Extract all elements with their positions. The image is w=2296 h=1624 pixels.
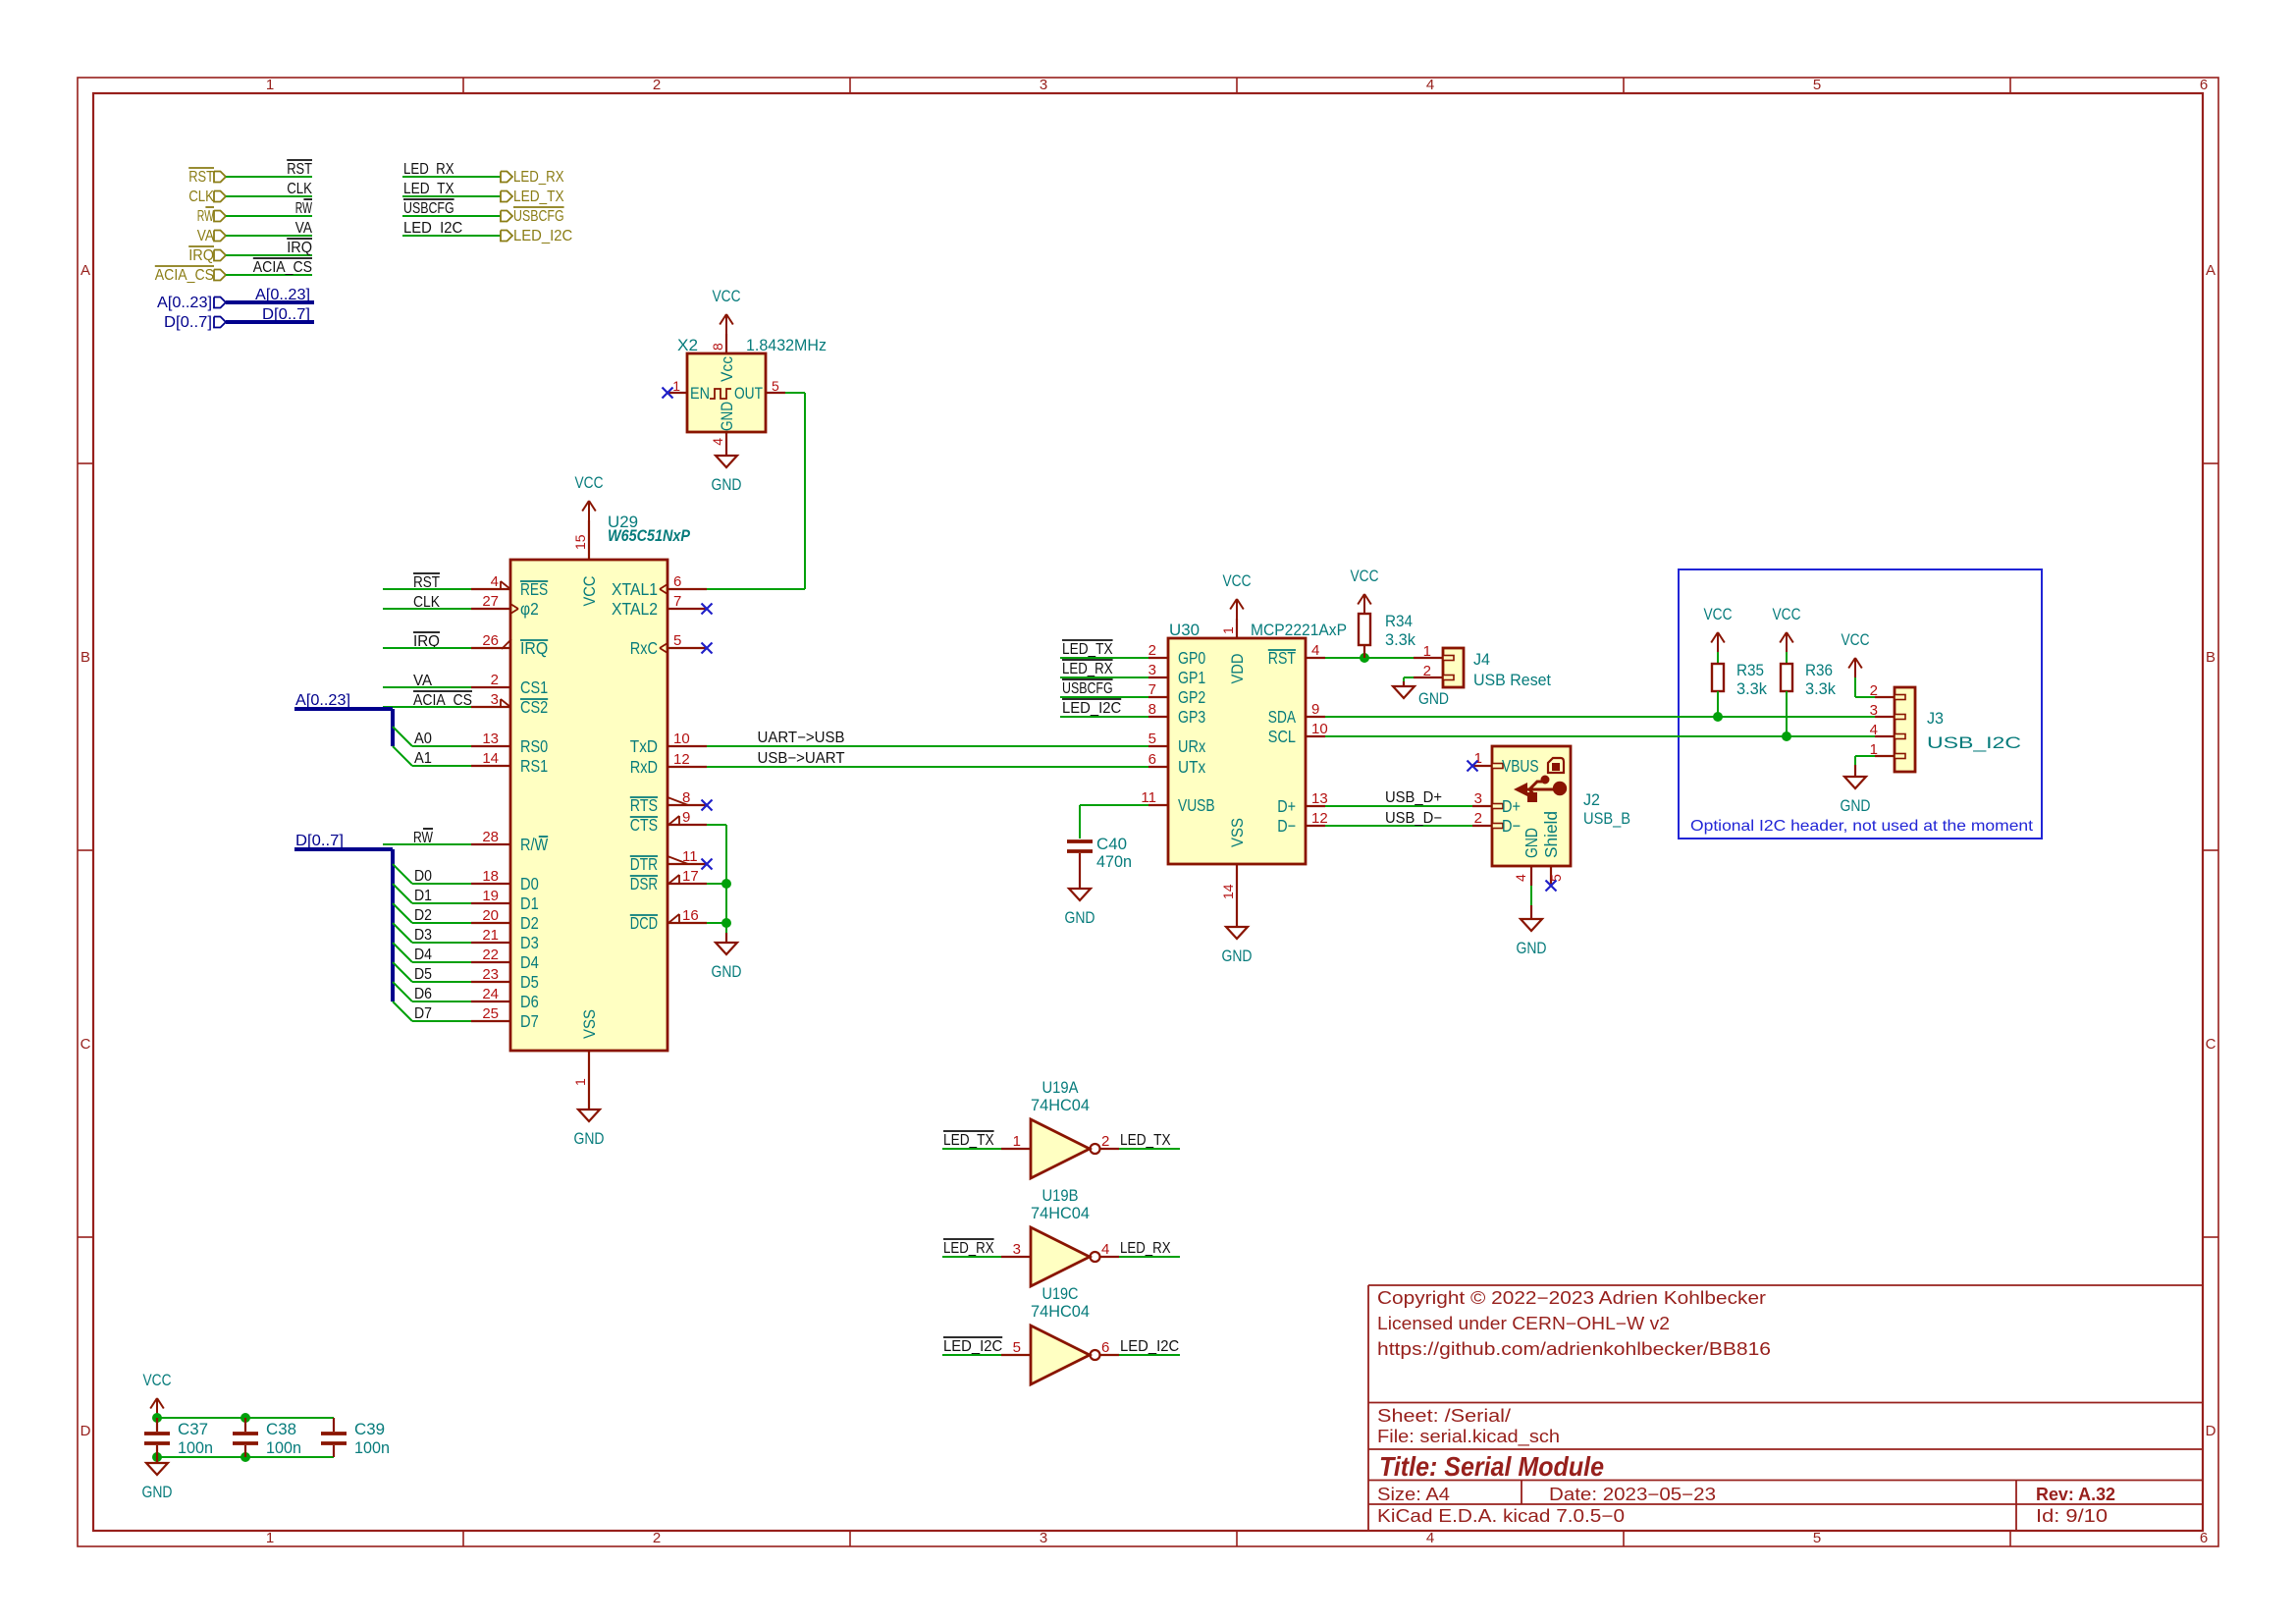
no-connect X2 pin 1 — [663, 388, 673, 399]
wire LED_I2C inverted to U19C — [942, 1354, 1001, 1356]
resistor R36 — [1786, 652, 1788, 664]
svg-text:B: B — [80, 649, 90, 666]
connector J2 pin 4 GND — [1530, 866, 1532, 886]
svg-text:5: 5 — [1813, 1530, 1821, 1546]
connector J2 pin 2 D- — [1472, 825, 1492, 827]
svg-text:C: C — [80, 1036, 91, 1053]
svg-text:RST: RST — [188, 169, 214, 186]
svg-text:Vcc: Vcc — [718, 356, 736, 382]
wire U30 SDA to J3 pin 3 — [1325, 716, 1875, 718]
svg-text:1: 1 — [572, 1078, 588, 1086]
svg-text:VA: VA — [197, 228, 215, 244]
svg-text:VBUS: VBUS — [1502, 756, 1539, 776]
svg-text:J2: J2 — [1583, 790, 1600, 809]
wire U30 RST to J4 — [1325, 657, 1414, 659]
note box optional I2C header — [1679, 569, 2042, 839]
svg-text:D0: D0 — [520, 874, 539, 893]
svg-text:File: serial.kicad_sch: File: serial.kicad_sch — [1377, 1427, 1560, 1447]
oscillator X2 waveform glyph — [710, 389, 731, 399]
wire USBCFG — [402, 215, 501, 217]
svg-text:3: 3 — [491, 691, 499, 708]
svg-text:CTS: CTS — [630, 815, 658, 835]
svg-text:2: 2 — [1423, 663, 1431, 679]
svg-text:R35: R35 — [1736, 661, 1764, 679]
svg-text:USBCFG: USBCFG — [403, 200, 454, 217]
svg-text:A[0..23]: A[0..23] — [255, 287, 310, 303]
hierarchical label LED_I2C — [501, 231, 512, 242]
svg-text:LED_TX: LED_TX — [943, 1132, 994, 1149]
svg-text:3: 3 — [1013, 1241, 1021, 1258]
svg-text:A[0..23]: A[0..23] — [295, 692, 350, 709]
connector J2 pin 3 D+ — [1472, 805, 1492, 807]
wire RST — [226, 176, 312, 178]
IC U30 pin 12 D− — [1306, 825, 1325, 827]
wire CLK to U29 — [383, 608, 471, 610]
wire D0 — [412, 883, 471, 885]
svg-text:RW: RW — [197, 208, 214, 225]
power VCC above U30 — [1236, 599, 1238, 619]
power VCC above U29 — [588, 501, 590, 520]
svg-text:100n: 100n — [266, 1438, 301, 1457]
svg-text:A: A — [80, 262, 90, 279]
svg-text:8: 8 — [1148, 701, 1156, 718]
svg-text:Date: 2023−05−23: Date: 2023−05−23 — [1549, 1485, 1716, 1504]
IC U29 pin 23 D5 — [471, 981, 510, 983]
svg-text:UTx: UTx — [1178, 757, 1205, 777]
IC U29 pin 17 DSR — [667, 883, 707, 885]
capacitor C39 — [333, 1418, 335, 1432]
svg-text:RxC: RxC — [630, 638, 658, 658]
wire LED_I2C from U19C — [1119, 1354, 1180, 1356]
svg-text:D1: D1 — [520, 893, 539, 913]
svg-text:4: 4 — [1311, 642, 1319, 659]
svg-text:U19B: U19B — [1042, 1186, 1079, 1205]
svg-text:U30: U30 — [1169, 621, 1200, 639]
svg-text:5: 5 — [772, 378, 779, 394]
connector J2 plug icon — [1548, 758, 1564, 773]
svg-text:LED_I2C: LED_I2C — [513, 228, 572, 244]
wire RW — [226, 215, 312, 217]
inverter U19C input pin 5 — [1001, 1354, 1031, 1356]
svg-text:VCC: VCC — [580, 576, 599, 607]
power VCC above R36 — [1786, 632, 1788, 652]
power VCC above R34 — [1363, 594, 1365, 614]
svg-text:USBCFG: USBCFG — [513, 208, 564, 225]
svg-text:LED_I2C: LED_I2C — [1120, 1338, 1179, 1355]
svg-text:6: 6 — [2200, 1530, 2208, 1546]
svg-text:2: 2 — [653, 77, 661, 93]
svg-text:GND: GND — [1517, 939, 1547, 957]
no-connect J2 VBUS — [1468, 761, 1478, 772]
connector J3 pin 3 — [1875, 716, 1895, 718]
svg-text:A[0..23]: A[0..23] — [157, 295, 212, 311]
svg-text:C38: C38 — [266, 1420, 296, 1438]
bus entry D5 — [393, 962, 412, 982]
svg-text:13: 13 — [482, 731, 499, 747]
connector J4 body — [1443, 648, 1464, 687]
wire ACIA_CS — [226, 274, 312, 276]
wire LED_RX from U19B — [1119, 1256, 1180, 1258]
svg-text:Rev: A.32: Rev: A.32 — [2036, 1485, 2115, 1504]
frame column/row ticks — [462, 78, 464, 93]
connector J3 pin 4 — [1875, 735, 1895, 737]
inverter U19C body — [1031, 1326, 1090, 1384]
wire USB_D+ to J2 — [1325, 805, 1472, 807]
svg-text:20: 20 — [482, 907, 499, 924]
svg-text:LED_TX: LED_TX — [1062, 641, 1113, 658]
svg-text:D2: D2 — [520, 913, 539, 933]
svg-text:LED_I2C: LED_I2C — [1062, 700, 1121, 717]
svg-text:26: 26 — [482, 632, 499, 649]
svg-text:R/W: R/W — [520, 835, 549, 854]
svg-text:D5: D5 — [520, 972, 539, 992]
svg-text:GP2: GP2 — [1178, 687, 1205, 707]
svg-text:D6: D6 — [520, 992, 539, 1011]
svg-text:W65C51NxP: W65C51NxP — [608, 526, 691, 545]
svg-text:RW: RW — [295, 200, 312, 217]
power VCC above R35 — [1717, 632, 1719, 652]
svg-text:IRQ: IRQ — [520, 638, 548, 658]
IC U30 pin 3 GP1 — [1148, 677, 1168, 678]
svg-text:C: C — [2206, 1036, 2216, 1053]
IC U29 pin 10 TxD — [667, 745, 707, 747]
svg-text:D: D — [80, 1423, 91, 1439]
svg-text:74HC04: 74HC04 — [1031, 1302, 1090, 1321]
svg-text:D6: D6 — [414, 986, 432, 1002]
IC U30 pin 11 VUSB — [1148, 804, 1168, 806]
svg-text:LED_TX: LED_TX — [513, 189, 564, 205]
svg-text:VCC: VCC — [1842, 630, 1870, 649]
wire IRQ to U29 — [383, 647, 471, 649]
svg-text:VCC: VCC — [713, 287, 741, 305]
svg-text:URx: URx — [1178, 736, 1205, 756]
svg-text:19: 19 — [482, 888, 499, 904]
svg-text:U19C: U19C — [1042, 1284, 1079, 1303]
capacitor C40 — [1067, 839, 1093, 843]
svg-text:Sheet: /Serial/: Sheet: /Serial/ — [1377, 1406, 1511, 1426]
wire U29 DSR junction — [707, 883, 726, 885]
wire VA — [226, 235, 312, 237]
svg-text:D[0..7]: D[0..7] — [164, 314, 212, 331]
svg-text:4: 4 — [1870, 722, 1878, 738]
svg-text:VA: VA — [295, 220, 313, 237]
no-connect U29 XTAL2 — [702, 604, 713, 615]
oscillator X2 pin 4 GND — [725, 432, 727, 456]
svg-text:3: 3 — [1474, 790, 1482, 807]
svg-text:D−: D− — [1277, 816, 1296, 836]
bus entry D2 — [393, 903, 412, 923]
connector J2 pin 5 Shield — [1550, 866, 1552, 886]
svg-text:3.3k: 3.3k — [1805, 679, 1836, 698]
svg-text:4: 4 — [1101, 1241, 1109, 1258]
bus entry D6 — [393, 982, 412, 1001]
svg-text:6: 6 — [673, 573, 681, 590]
svg-text:GP1: GP1 — [1178, 668, 1205, 687]
svg-text:2: 2 — [653, 1530, 661, 1546]
svg-text:U19A: U19A — [1042, 1078, 1080, 1097]
IC U29 pin 2 CS1 — [471, 686, 510, 688]
svg-text:J4: J4 — [1473, 650, 1490, 669]
IC U29 pin 18 D0 — [471, 883, 510, 885]
IC U29 pin 6 XTAL1 — [667, 588, 707, 590]
svg-text:D[0..7]: D[0..7] — [262, 306, 310, 323]
svg-text:VSS: VSS — [580, 1009, 599, 1039]
ground below X2 — [716, 456, 737, 467]
wire LED_RX inverted to U19B — [942, 1256, 1001, 1258]
wire J3 pin 1 to ground — [1855, 755, 1875, 757]
bus entry A1 — [393, 746, 412, 766]
svg-text:VCC: VCC — [1223, 571, 1252, 590]
svg-text:CS1: CS1 — [520, 677, 548, 697]
capacitor C38 — [244, 1418, 246, 1432]
svg-text:LED_I2C: LED_I2C — [943, 1338, 1002, 1355]
svg-text:USB Reset: USB Reset — [1473, 671, 1551, 689]
svg-text:USB_B: USB_B — [1583, 809, 1630, 828]
wire D1 — [412, 902, 471, 904]
svg-text:5: 5 — [1813, 77, 1821, 93]
svg-text:9: 9 — [1311, 701, 1319, 718]
wire USB_D- to J2 — [1325, 825, 1472, 827]
wire U30 VUSB to C40 — [1080, 804, 1148, 806]
svg-text:21: 21 — [482, 927, 499, 944]
svg-text:LED_RX: LED_RX — [1120, 1240, 1171, 1257]
IC U29 pin 19 D1 — [471, 902, 510, 904]
svg-text:R36: R36 — [1805, 661, 1833, 679]
IC U29 pin 15 VCC — [588, 520, 590, 560]
svg-text:3: 3 — [1040, 1530, 1047, 1546]
svg-text:USB_D−: USB_D− — [1385, 810, 1442, 827]
IC U29 pin 12 RxD — [667, 766, 707, 768]
connector J3 pin 2 — [1875, 696, 1895, 698]
svg-text:D4: D4 — [414, 947, 432, 963]
svg-text:1.8432MHz: 1.8432MHz — [746, 336, 827, 354]
no-connect U29 DTR — [702, 859, 713, 870]
wire GND rail C37-C39 — [157, 1456, 334, 1458]
svg-text:RST: RST — [287, 161, 312, 178]
wire U29 TxD to U30 URx — [707, 745, 1148, 747]
svg-text:VCC: VCC — [1773, 605, 1801, 623]
svg-text:GND: GND — [1418, 689, 1449, 708]
bus D[0..7] — [226, 320, 314, 324]
svg-text:Licensed under CERN−OHL−W v2: Licensed under CERN−OHL−W v2 — [1377, 1314, 1670, 1333]
svg-text:GND: GND — [1841, 796, 1871, 815]
inverter U19A body — [1031, 1119, 1090, 1178]
svg-text:12: 12 — [673, 751, 690, 768]
svg-text:12: 12 — [1311, 810, 1328, 827]
IC U29 pin 8 RTS — [667, 804, 707, 806]
svg-text:1: 1 — [266, 77, 274, 93]
svg-text:1: 1 — [1423, 643, 1431, 660]
IC U29 pin 28 R/W — [471, 843, 510, 845]
svg-text:100n: 100n — [354, 1438, 390, 1457]
svg-text:22: 22 — [482, 947, 499, 963]
svg-text:GND: GND — [718, 402, 736, 431]
svg-text:15: 15 — [572, 534, 588, 550]
svg-text:LED_RX: LED_RX — [943, 1240, 994, 1257]
svg-text:OUT: OUT — [734, 384, 763, 403]
wire CLK — [226, 195, 312, 197]
IC U29 pin 27 φ2 — [471, 608, 510, 610]
oscillator X2 pin 8 Vcc — [725, 334, 727, 353]
svg-text:USB_D+: USB_D+ — [1385, 789, 1442, 806]
svg-text:XTAL1: XTAL1 — [612, 579, 658, 599]
svg-text:X2: X2 — [677, 336, 698, 354]
bus entry D4 — [393, 943, 412, 962]
IC U29 pin 1 VSS — [588, 1051, 590, 1090]
svg-text:GND: GND — [712, 475, 742, 494]
wire U29 CTS down — [707, 824, 726, 826]
svg-text:LED_TX: LED_TX — [403, 181, 454, 197]
connector J4 pin 2 — [1414, 677, 1443, 678]
wire D4 — [412, 961, 471, 963]
svg-text:ACIA_CS: ACIA_CS — [155, 267, 214, 284]
ground below C40 — [1069, 889, 1091, 900]
IC U30 pin 9 SDA — [1306, 716, 1325, 718]
svg-text:2: 2 — [491, 672, 499, 688]
svg-text:USB−>UART: USB−>UART — [758, 750, 846, 767]
svg-text:GND: GND — [574, 1129, 605, 1148]
svg-text:14: 14 — [482, 750, 499, 767]
connector J4 pin 1 — [1414, 657, 1443, 659]
IC U30 pin 5 URx — [1148, 745, 1168, 747]
svg-text:RTS: RTS — [630, 795, 658, 815]
svg-text:5: 5 — [1013, 1339, 1021, 1356]
svg-text:VCC: VCC — [1351, 567, 1379, 585]
hierarchical label USBCFG — [501, 211, 512, 222]
svg-text:RS1: RS1 — [520, 756, 548, 776]
svg-text:10: 10 — [673, 731, 690, 747]
svg-text:SCL: SCL — [1268, 727, 1296, 746]
svg-text:1: 1 — [266, 1530, 274, 1546]
connector J3 pin 1 — [1875, 755, 1895, 757]
wire D5 — [412, 981, 471, 983]
bus entry D7 — [393, 1001, 412, 1021]
svg-text:GND: GND — [712, 962, 742, 981]
svg-text:24: 24 — [482, 986, 499, 1002]
wire LED_TX — [402, 195, 501, 197]
svg-text:D3: D3 — [414, 927, 432, 944]
IC U29 body — [510, 560, 667, 1051]
ground below U29 — [588, 1090, 590, 1110]
svg-text:LED_TX: LED_TX — [1120, 1132, 1171, 1149]
svg-text:RES: RES — [520, 579, 548, 599]
svg-text:D7: D7 — [520, 1011, 539, 1031]
svg-text:GP0: GP0 — [1178, 648, 1205, 668]
svg-text:D7: D7 — [414, 1005, 432, 1022]
svg-text:https://github.com/adrienkohlb: https://github.com/adrienkohlbecker/BB81… — [1377, 1339, 1771, 1359]
svg-text:Copyright © 2022−2023 Adrien K: Copyright © 2022−2023 Adrien Kohlbecker — [1377, 1288, 1766, 1308]
svg-text:5: 5 — [1148, 731, 1156, 747]
svg-text:DSR: DSR — [630, 874, 658, 893]
wire IRQ — [226, 254, 312, 256]
svg-text:J3: J3 — [1927, 709, 1944, 728]
wire A1 — [412, 765, 471, 767]
svg-text:D1: D1 — [414, 888, 432, 904]
bus entry D3 — [393, 923, 412, 943]
svg-text:LED_I2C: LED_I2C — [403, 220, 462, 237]
inverter U19A output pin 2 — [1100, 1148, 1119, 1150]
svg-text:6: 6 — [1101, 1339, 1109, 1356]
svg-text:C40: C40 — [1096, 835, 1127, 853]
wire LED_I2C to U30 — [1060, 716, 1148, 718]
svg-text:13: 13 — [1311, 790, 1328, 807]
inverter U19A input pin 1 — [1001, 1148, 1031, 1150]
svg-text:IRQ: IRQ — [287, 240, 312, 256]
IC U29 pin 5 RxC — [667, 647, 707, 649]
wire LED_TX from U19A — [1119, 1148, 1180, 1150]
no-connect J2 Shield — [1546, 881, 1557, 892]
connector J2 pin 1 VBUS — [1472, 765, 1492, 767]
svg-text:CLK: CLK — [287, 181, 312, 197]
hierarchical label LED_TX — [501, 191, 512, 202]
svg-text:RST: RST — [1268, 648, 1296, 668]
oscillator X2 pin 1 EN — [667, 392, 687, 394]
IC U30 pin 8 GP3 — [1148, 716, 1168, 718]
bus D[0..7] to D0-D7 — [294, 847, 393, 851]
wire J2 GND down — [1530, 886, 1532, 905]
svg-text:C39: C39 — [354, 1420, 385, 1438]
svg-text:2: 2 — [1148, 642, 1156, 659]
bus A[0..23] — [226, 300, 314, 304]
IC U29 pin 16 DCD — [667, 922, 707, 924]
IC U29 pin 21 D3 — [471, 942, 510, 944]
IC U30 pin 4 RST — [1306, 657, 1325, 659]
svg-text:RxD: RxD — [630, 757, 658, 777]
wire D3 — [412, 942, 471, 944]
svg-text:D2: D2 — [414, 907, 432, 924]
svg-text:17: 17 — [682, 868, 699, 885]
svg-text:4: 4 — [1513, 874, 1528, 882]
IC U29 pin 26 IRQ — [471, 647, 510, 649]
svg-text:C37: C37 — [178, 1420, 208, 1438]
bus entry D1 — [393, 884, 412, 903]
svg-text:IRQ: IRQ — [188, 247, 214, 264]
wire VCC rail C37-C39 — [157, 1417, 334, 1419]
svg-text:74HC04: 74HC04 — [1031, 1204, 1090, 1222]
IC U30 pin 13 D+ — [1306, 805, 1325, 807]
svg-text:4: 4 — [1426, 1530, 1434, 1546]
svg-text:XTAL2: XTAL2 — [612, 599, 658, 619]
svg-text:14: 14 — [1220, 884, 1236, 899]
svg-text:CS2: CS2 — [520, 697, 548, 717]
IC U29 pin 3 CS2 — [471, 706, 510, 708]
bus entry A0 — [393, 727, 412, 746]
wire RW to U29 — [383, 843, 471, 845]
svg-text:Optional I2C header, not used: Optional I2C header, not used at the mom… — [1690, 818, 2034, 835]
wire J3 pin 2 to VCC — [1855, 696, 1875, 698]
inverter U19B output pin 4 — [1100, 1256, 1119, 1258]
IC U29 pin 24 D6 — [471, 1001, 510, 1002]
svg-text:5: 5 — [673, 632, 681, 649]
connector J3 body — [1895, 687, 1915, 772]
svg-text:Shield: Shield — [1541, 811, 1561, 858]
svg-text:GND: GND — [1065, 908, 1095, 927]
svg-text:D+: D+ — [1277, 796, 1296, 816]
svg-text:3: 3 — [1870, 702, 1878, 719]
IC U30 pin 14 VSS — [1236, 864, 1238, 903]
svg-text:D−: D− — [1502, 816, 1521, 836]
svg-text:4: 4 — [1426, 77, 1434, 93]
ground at J4 — [1403, 681, 1405, 686]
svg-text:3.3k: 3.3k — [1736, 679, 1767, 698]
svg-text:Id: 9/10: Id: 9/10 — [2036, 1506, 2108, 1526]
svg-text:VSS: VSS — [1228, 818, 1247, 847]
svg-text:UART−>USB: UART−>USB — [758, 730, 845, 746]
svg-text:6: 6 — [2200, 77, 2208, 93]
IC U29 pin 25 D7 — [471, 1020, 510, 1022]
svg-text:D3: D3 — [520, 933, 539, 952]
svg-text:1: 1 — [672, 378, 680, 394]
